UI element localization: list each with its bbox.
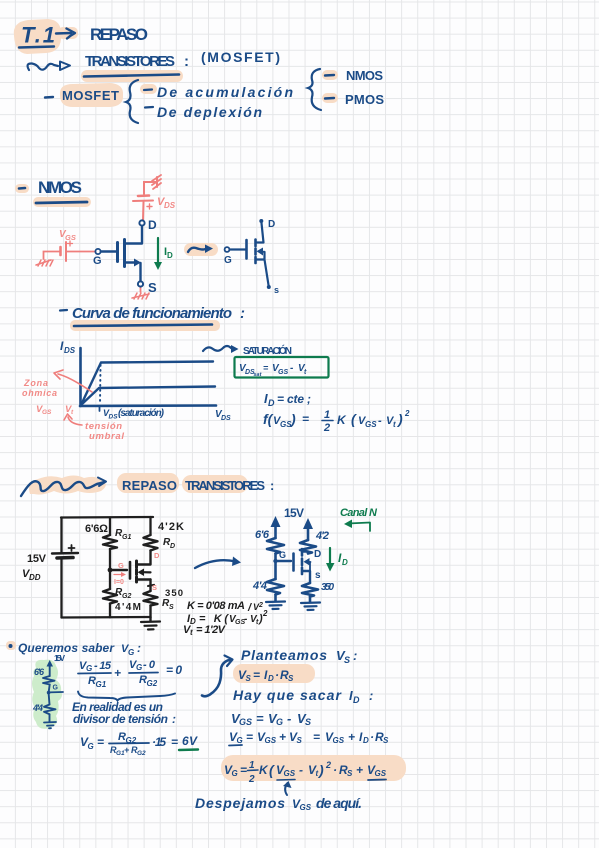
svg-text:4'4: 4'4 xyxy=(252,580,267,592)
svg-text:GS: GS xyxy=(265,736,277,745)
equation plus xyxy=(114,666,121,680)
svg-text::: : xyxy=(353,648,357,663)
svg-text:NMOS: NMOS xyxy=(346,68,383,83)
result 6V with green underline xyxy=(179,734,198,750)
svg-text:D: D xyxy=(268,219,275,230)
svg-text:2: 2 xyxy=(262,609,268,618)
wire S node to ground (red) xyxy=(140,287,142,292)
label VDD xyxy=(22,568,41,582)
formula VDSsat = VGS - Vt xyxy=(239,363,307,378)
svg-text:S: S xyxy=(152,583,157,592)
svg-text:4'4: 4'4 xyxy=(32,703,43,713)
underline of TRANSISTORES xyxy=(84,75,179,77)
svg-text:=: = xyxy=(171,735,178,749)
svg-text:umbral: umbral xyxy=(89,431,124,442)
text divisor de tension xyxy=(73,712,176,726)
heading REPASO TRANSISTORES xyxy=(122,478,274,493)
transistor blue mosfet channel xyxy=(302,549,311,583)
svg-text::: : xyxy=(184,53,189,70)
svg-text:Despejamos: Despejamos xyxy=(195,795,285,811)
highlight Vs = IdRs xyxy=(233,664,315,683)
annotation zona ohmica (red) xyxy=(22,378,57,398)
svg-text:D: D xyxy=(268,674,274,683)
label VGS Vt (red) xyxy=(36,404,74,416)
dotted saturation boundary xyxy=(100,365,101,411)
svg-text::: : xyxy=(270,478,274,493)
label 4'2 xyxy=(315,530,329,542)
svg-text:T.1: T.1 xyxy=(21,23,55,48)
svg-text:De acumulación: De acumulación xyxy=(157,84,293,100)
arrow under Canal N (green) xyxy=(344,520,370,532)
svg-text:+: + xyxy=(348,730,355,744)
wire battery to D node (red) xyxy=(142,202,145,220)
label 4'2K xyxy=(158,521,184,533)
formula f(VGS) = 1/2 K(VGS-Vt)^2 xyxy=(263,409,410,434)
item De acumulacion xyxy=(144,84,293,100)
svg-text:de aquí.: de aquí. xyxy=(316,795,362,811)
svg-text:15V: 15V xyxy=(27,553,47,565)
wire gate node to gate bar (blue) xyxy=(276,560,292,562)
word REPASO xyxy=(90,25,148,44)
svg-text:+: + xyxy=(279,730,286,744)
brace 2 xyxy=(308,69,321,110)
svg-text:S: S xyxy=(383,736,389,745)
svg-text:S: S xyxy=(297,736,303,745)
svg-text:- 0: - 0 xyxy=(143,659,156,671)
svg-text:D: D xyxy=(167,251,173,260)
svg-text:REPASO: REPASO xyxy=(122,478,177,493)
highlight blob behind T.1 xyxy=(14,19,61,54)
svg-text:6V: 6V xyxy=(182,734,198,748)
pin S label (blue) xyxy=(315,570,321,581)
svg-text:4'4M: 4'4M xyxy=(115,602,141,613)
highlight dash NMOS xyxy=(322,70,338,80)
svg-text:2: 2 xyxy=(325,760,331,770)
resistor RS 350 (black) xyxy=(144,591,158,606)
battery VDS (red) xyxy=(133,196,153,210)
highlight arm under arrow xyxy=(58,27,78,39)
svg-text::: : xyxy=(137,641,141,655)
svg-text:·: · xyxy=(275,668,279,682)
svg-text:S: S xyxy=(288,674,294,683)
svg-text:+: + xyxy=(356,763,363,777)
svg-text:G: G xyxy=(232,769,238,778)
formula VGS = VG - VS xyxy=(231,711,311,727)
highlight dash PMOS xyxy=(322,93,338,103)
highlight behind REPASO heading xyxy=(117,473,248,493)
svg-text:t: t xyxy=(190,628,193,637)
big squiggle arrow repaso xyxy=(21,478,106,497)
graph x-axis xyxy=(80,404,216,407)
svg-text:G: G xyxy=(86,664,92,673)
supply arrow left branch (blue) xyxy=(271,516,281,538)
node D (blue) xyxy=(139,218,157,232)
wire and ground small ckt (blue) xyxy=(44,714,56,728)
svg-text:K: K xyxy=(337,413,347,427)
svg-text:-: - xyxy=(299,763,303,777)
annotation tension umbral (red) xyxy=(85,421,124,442)
annotation Canal N (green) xyxy=(340,507,378,519)
svg-text:DS: DS xyxy=(221,415,231,422)
svg-text:D: D xyxy=(342,558,348,567)
svg-text:2: 2 xyxy=(248,774,255,785)
svg-text:Queremos saber: Queremos saber xyxy=(18,641,115,655)
wire to lower resistor small ckt xyxy=(48,693,51,705)
wire left top (black) xyxy=(60,518,62,553)
svg-text:S: S xyxy=(344,655,350,665)
current arrow ID (green) xyxy=(326,548,348,572)
highlight behind NMOS underline xyxy=(33,197,91,207)
text Planteamos Vs xyxy=(241,647,357,665)
pin D label (blue) xyxy=(314,549,321,560)
label VDS (red) xyxy=(157,196,176,210)
svg-text:(: ( xyxy=(351,411,357,427)
svg-text:15V: 15V xyxy=(284,506,304,520)
resistor 6'6 small (blue) xyxy=(43,676,55,685)
equation node VG: fraction 1 xyxy=(78,660,112,689)
svg-text:S: S xyxy=(246,674,252,683)
svg-text:(MOSFET): (MOSFET) xyxy=(201,49,280,65)
node S (blue) xyxy=(138,280,157,295)
wire RD to drain xyxy=(149,551,151,565)
svg-text:350: 350 xyxy=(321,582,334,593)
resistor RG1 6'6 (black) xyxy=(103,535,117,549)
highlight bullet dot xyxy=(6,641,16,650)
svg-text:DD: DD xyxy=(29,573,41,582)
ground left (red) xyxy=(36,260,53,266)
squiggle arrow to saturacion xyxy=(203,345,239,353)
ground right branch (blue) xyxy=(301,603,320,611)
green highlight blob around divider xyxy=(32,660,62,729)
svg-text:I=0: I=0 xyxy=(114,579,124,586)
svg-text:TRANSISTORES: TRANSISTORES xyxy=(185,478,265,493)
svg-text:+: + xyxy=(114,666,121,680)
svg-text:G: G xyxy=(53,685,59,692)
svg-text:): ) xyxy=(289,411,296,427)
label VGS left (red) xyxy=(59,229,76,242)
dash before MOSFET xyxy=(45,96,53,99)
svg-text:D: D xyxy=(363,736,369,745)
resistor 4'4 small (blue) xyxy=(44,705,56,715)
battery VGS (red) xyxy=(61,241,73,261)
resistor 4'2 (blue) xyxy=(300,540,316,554)
svg-text:GS: GS xyxy=(300,803,312,812)
arrow tension umbral (red) xyxy=(64,414,82,425)
wire bottom rail (black) xyxy=(62,616,151,619)
svg-text:=: = xyxy=(313,730,320,744)
equation fraction 2 xyxy=(129,659,158,688)
node G small ckt with stub xyxy=(47,685,63,695)
svg-text:2: 2 xyxy=(404,409,410,418)
wire resistor to node xyxy=(49,685,50,693)
svg-text:GS: GS xyxy=(278,369,288,376)
node gate junction (black) xyxy=(108,568,113,573)
supply arrow small ckt (blue) xyxy=(47,660,54,676)
ground below S (red) xyxy=(132,293,149,299)
svg-text:G2: G2 xyxy=(122,593,131,600)
label 15V xyxy=(27,553,47,565)
svg-text:De deplexión: De deplexión xyxy=(157,104,262,120)
svg-text:D: D xyxy=(314,549,321,560)
svg-text:GS: GS xyxy=(375,769,387,778)
highlight behind NMOS dash xyxy=(15,184,29,193)
svg-text:6'6: 6'6 xyxy=(34,667,45,677)
supply arrow right branch (blue) xyxy=(303,518,313,540)
curve high VGS xyxy=(81,362,213,406)
svg-text:G2: G2 xyxy=(137,750,146,757)
pin G annotation (red) xyxy=(118,561,124,570)
svg-text:t: t xyxy=(393,420,396,429)
highlight behind big squiggle xyxy=(29,476,106,495)
label 6'6 small xyxy=(34,667,45,677)
label 15V small ckt xyxy=(54,653,65,663)
svg-text:sat: sat xyxy=(254,372,263,378)
text Despejamos VGS de aqui xyxy=(195,795,362,812)
svg-text::: : xyxy=(240,305,245,322)
svg-text:DS: DS xyxy=(164,201,176,210)
svg-text:·: · xyxy=(370,730,374,744)
arrow to VGS xyxy=(283,781,292,795)
svg-text::: : xyxy=(172,712,176,726)
svg-text:GS: GS xyxy=(284,769,296,778)
underline NMOS xyxy=(36,202,87,203)
node S of symbol xyxy=(267,285,279,295)
svg-text:=: = xyxy=(253,668,260,682)
svg-text:): ) xyxy=(317,762,324,778)
svg-text:REPASO: REPASO xyxy=(90,25,148,44)
svg-text:Curva de funcionamiento: Curva de funcionamiento xyxy=(72,305,232,322)
formula ID = K(VGS-Vt)2 (black) xyxy=(187,609,268,626)
svg-text:G: G xyxy=(237,736,243,745)
svg-text:6'6Ω: 6'6Ω xyxy=(85,523,108,535)
svg-text:Zona: Zona xyxy=(23,378,48,388)
text Hay que sacar ID xyxy=(233,687,373,705)
svg-text:Planteamos: Planteamos xyxy=(241,647,327,663)
axis label IDS xyxy=(60,339,76,355)
formula Vs = IdRs xyxy=(238,668,294,683)
pin S annotation (red) xyxy=(152,583,157,592)
label 4'4M xyxy=(115,602,141,613)
node G (blue) xyxy=(273,550,286,563)
highlight behind small squiggle xyxy=(184,243,218,256)
svg-text:D: D xyxy=(154,551,160,560)
squiggle arrow xyxy=(28,62,70,71)
svg-text:Canal N: Canal N xyxy=(340,507,378,519)
svg-text:D: D xyxy=(170,543,175,550)
svg-text:15V: 15V xyxy=(54,653,65,663)
svg-text:-: - xyxy=(244,614,248,625)
svg-text:D: D xyxy=(353,695,360,705)
svg-text:(saturación): (saturación) xyxy=(118,408,165,419)
svg-text:t: t xyxy=(304,369,307,376)
svg-text:G1: G1 xyxy=(96,680,107,689)
svg-text:4'2: 4'2 xyxy=(315,530,329,542)
value Vt = 1'2V (black) xyxy=(183,624,227,637)
item NMOS xyxy=(325,68,383,83)
svg-text:· 15: · 15 xyxy=(152,735,166,749)
svg-text:-: - xyxy=(378,415,382,427)
svg-text:=: = xyxy=(97,735,104,749)
svg-text:DS: DS xyxy=(64,346,76,355)
svg-text:2: 2 xyxy=(323,422,330,434)
svg-text:K: K xyxy=(259,763,269,777)
wire resistor to gate node (blue) xyxy=(274,554,277,562)
svg-text:S: S xyxy=(169,604,174,611)
graph y-axis xyxy=(79,348,82,406)
svg-text:+: + xyxy=(124,745,130,755)
svg-text:= 1'2V: = 1'2V xyxy=(196,624,227,636)
arrow zona ohmica (red) xyxy=(54,370,92,392)
wire 350 to ground (blue) xyxy=(309,597,312,603)
svg-text:·: · xyxy=(333,763,337,777)
label RG2 xyxy=(115,587,131,600)
equation equals zero xyxy=(166,663,182,677)
wire battery to G node (red) xyxy=(67,251,95,253)
word MOSFET xyxy=(62,88,119,103)
svg-text:=: = xyxy=(246,730,253,744)
wire RG1 to gate node xyxy=(109,549,111,570)
green box saturation formula xyxy=(235,357,329,378)
svg-text:G: G xyxy=(224,255,232,266)
highlight blob behind MOSFET xyxy=(60,83,123,107)
svg-text:G: G xyxy=(276,717,283,727)
formula ID = cte xyxy=(264,391,311,408)
svg-text:-: - xyxy=(287,711,291,726)
svg-text:-: - xyxy=(290,363,294,374)
highlight final formula xyxy=(221,755,406,781)
resistor RG2 4'4M (black) xyxy=(103,589,117,604)
svg-text:=: = xyxy=(240,763,247,777)
brace 1 xyxy=(126,80,138,123)
svg-text:NMOS: NMOS xyxy=(38,178,82,197)
svg-text:GS: GS xyxy=(239,717,252,727)
gate current arrow I=0 (red) xyxy=(114,572,126,586)
label RD xyxy=(163,537,175,550)
svg-text:G1: G1 xyxy=(122,534,131,541)
svg-text:K = 0'08 mA: K = 0'08 mA xyxy=(187,600,245,612)
word TRANSISTORES xyxy=(85,53,189,70)
text En realidad es un xyxy=(72,700,163,714)
pin D annotation (red) xyxy=(154,551,160,560)
label VDS(saturacion) xyxy=(103,408,165,421)
ground left branch (blue) xyxy=(266,602,285,610)
svg-text:2: 2 xyxy=(258,602,263,609)
svg-text:SATURACIÓN: SATURACIÓN xyxy=(243,344,292,357)
svg-text:G: G xyxy=(118,561,124,570)
highlight under curva underline xyxy=(70,320,220,331)
arrow after T.1 xyxy=(56,29,75,39)
node G label (blue) xyxy=(93,255,102,267)
svg-text::: : xyxy=(369,688,373,703)
axis label VDS xyxy=(215,409,231,422)
svg-text:=: = xyxy=(302,412,309,426)
svg-text:ohmica: ohmica xyxy=(22,388,57,398)
svg-text:=: = xyxy=(256,711,264,726)
svg-text:divisor de tensión: divisor de tensión xyxy=(73,712,168,726)
wire left bottom (black) xyxy=(60,558,62,618)
svg-text:S: S xyxy=(347,769,353,778)
wire 4'4 to ground (blue) xyxy=(274,595,277,602)
label 4'4 xyxy=(252,580,267,592)
transistor Q black mosfet xyxy=(130,561,154,591)
svg-text:= cte ;: = cte ; xyxy=(277,392,311,406)
svg-text:G: G xyxy=(136,663,142,672)
item PMOS xyxy=(325,92,384,107)
node G label of symbol xyxy=(224,255,232,266)
heading Curva de funcionamiento xyxy=(60,305,245,322)
svg-text:): ) xyxy=(396,411,403,427)
ground (black) xyxy=(141,617,160,629)
svg-text:G2: G2 xyxy=(147,679,158,688)
svg-text:D: D xyxy=(268,398,275,408)
highlight dash acumulacion xyxy=(140,84,157,94)
svg-text:1: 1 xyxy=(324,409,330,421)
svg-text:G: G xyxy=(93,255,102,267)
label 350 xyxy=(165,588,183,599)
label RS xyxy=(162,598,174,611)
svg-text:D: D xyxy=(148,218,157,232)
supply hatch symbol top (red) xyxy=(152,175,161,189)
svg-text:S: S xyxy=(305,717,311,727)
svg-text:PMOS: PMOS xyxy=(345,92,384,107)
svg-text:DS: DS xyxy=(109,414,119,421)
transistor Q1 nmos (blue) xyxy=(95,226,142,281)
wire gate node to transistor xyxy=(110,569,127,571)
resistor RD 4'2K (black) xyxy=(144,535,158,551)
svg-text:= 0: = 0 xyxy=(166,663,182,677)
label 350 (blue) xyxy=(321,582,334,593)
battery VDD 15V (black) xyxy=(52,545,78,558)
label 6'6ohm xyxy=(85,523,108,535)
arrow between circuits (blue) xyxy=(195,557,241,569)
highlight under TRANSISTORES underline xyxy=(81,70,183,82)
svg-text:s: s xyxy=(274,285,279,295)
label SATURACION xyxy=(243,344,292,357)
item De deplexion xyxy=(145,104,262,120)
wire top rail (black) xyxy=(61,516,153,519)
svg-text:s: s xyxy=(315,570,321,581)
heading - NMOS xyxy=(19,178,82,197)
line Queremos saber VG xyxy=(9,641,142,657)
svg-text:S: S xyxy=(148,280,157,295)
wire top to RD xyxy=(149,517,151,535)
current arrow ID (green) xyxy=(154,238,173,270)
label 6'6 xyxy=(255,529,270,541)
formula VG = 1/2 K(VGS - Vt)2 Rs + VGS xyxy=(224,760,387,785)
big curly connector xyxy=(202,656,233,697)
svg-text:G: G xyxy=(128,648,134,657)
svg-text:Hay que sacar: Hay que sacar xyxy=(233,687,343,703)
resistor 6'6 (blue) xyxy=(267,538,284,554)
svg-text:1: 1 xyxy=(249,760,255,771)
svg-text:G: G xyxy=(279,550,286,560)
svg-text:- 15: - 15 xyxy=(94,660,112,672)
wire gate node down to 4'4 (blue) xyxy=(274,561,277,579)
svg-text:GS: GS xyxy=(365,420,377,429)
wire gate node to RG2 xyxy=(109,570,111,589)
wire hatch to battery VDS (red) xyxy=(144,182,156,194)
node D of symbol xyxy=(259,219,275,230)
svg-text:TRANSISTORES: TRANSISTORES xyxy=(85,53,175,70)
svg-text:=: = xyxy=(263,363,269,373)
underline curva xyxy=(74,325,212,327)
label RG1 xyxy=(115,528,131,541)
svg-text:6'6: 6'6 xyxy=(255,529,270,541)
wire battery to left ground (red) xyxy=(44,252,61,260)
svg-text:G: G xyxy=(88,742,94,751)
transistor symbol nmos 4-terminal (blue) xyxy=(225,223,269,285)
gate bar (blue) xyxy=(292,554,295,571)
